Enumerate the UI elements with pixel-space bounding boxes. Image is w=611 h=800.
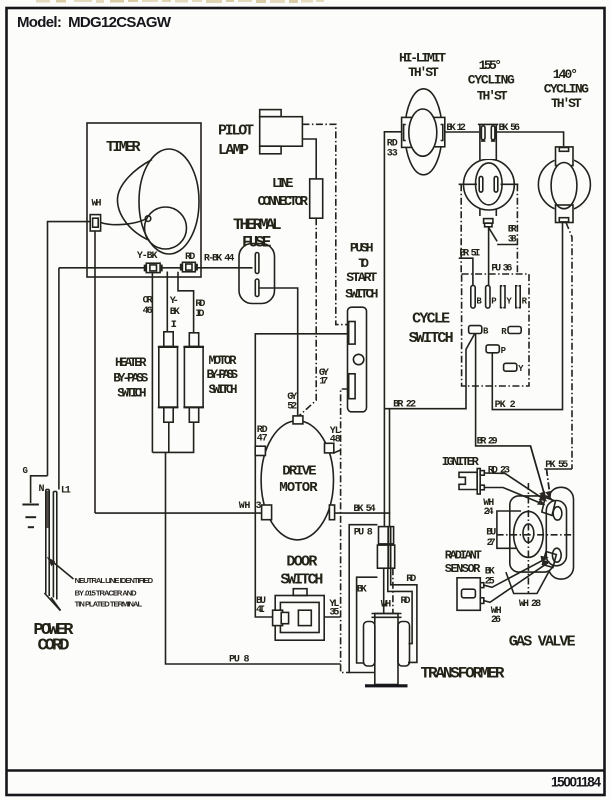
wire WH from timer terminal bottom down to WH3 line	[94, 231, 96, 513]
svg-text:26: 26	[491, 615, 501, 626]
svg-text:HEATER: HEATER	[115, 356, 147, 370]
gas valve bottom tab	[543, 552, 557, 568]
wire RD 10	[178, 272, 194, 333]
svg-text:Model: MDG12CSAGW: Model: MDG12CSAGW	[17, 14, 172, 31]
wire Y-BK 11	[166, 272, 168, 333]
gas valve top tab	[542, 498, 556, 516]
door switch	[273, 589, 325, 641]
svg-text:BU: BU	[486, 528, 496, 539]
svg-text:SENSOR: SENSOR	[445, 562, 481, 576]
svg-text:140°: 140°	[553, 67, 578, 82]
svg-text:G: G	[23, 466, 28, 476]
wire from pilot lamp to push-to-start	[302, 124, 348, 324]
svg-text:L1: L1	[61, 485, 71, 496]
svg-text:PU 8: PU 8	[229, 655, 250, 666]
svg-text:Y: Y	[506, 297, 512, 307]
svg-text:4I: 4I	[256, 605, 265, 616]
svg-text:R-BK 44: R-BK 44	[204, 254, 235, 265]
svg-text:GAS VALVE: GAS VALVE	[509, 634, 576, 651]
wire PK 55 end segment	[547, 469, 551, 496]
wire: main bus from L1 to thermal fuse (through Y-BK, RD terminals)	[59, 267, 253, 269]
svg-text:N: N	[39, 484, 45, 495]
svg-text:BR 22: BR 22	[393, 400, 416, 411]
motor terminal GY 52	[293, 416, 303, 424]
svg-text:LAMP: LAMP	[218, 142, 249, 159]
svg-text:SWITCH: SWITCH	[345, 287, 378, 302]
svg-text:PK 55: PK 55	[545, 460, 568, 471]
svg-text:MOTOR: MOTOR	[279, 480, 318, 496]
wire BR 51	[459, 249, 481, 286]
wire BK 25	[484, 558, 547, 587]
wire L1 riser from main bus	[58, 268, 60, 490]
svg-text:PK 2: PK 2	[495, 400, 516, 411]
cycle switch top slots B P Y R	[471, 285, 528, 308]
timer terminal WH	[90, 199, 101, 232]
timer terminal Y-BK	[137, 251, 162, 272]
svg-text:47: 47	[257, 433, 268, 444]
svg-text:25: 25	[485, 577, 495, 588]
motor terminal WH 3	[262, 505, 272, 520]
svg-text:R: R	[522, 297, 528, 307]
wire PU8 outer loop	[349, 525, 377, 673]
svg-text:START: START	[346, 270, 377, 285]
svg-text:CORD: CORD	[38, 637, 70, 656]
svg-text:BK: BK	[357, 584, 367, 595]
svg-text:24: 24	[484, 507, 494, 518]
svg-text:II: II	[171, 320, 177, 331]
svg-text:NEUTRAL LINE IDENTIFIED: NEUTRAL LINE IDENTIFIED	[75, 576, 154, 585]
wire from BR22 corner down to connector block	[389, 409, 391, 526]
wire BK 56	[496, 132, 563, 147]
motor terminal RD 47	[255, 446, 265, 455]
svg-text:BY .015 TRACER AND: BY .015 TRACER AND	[75, 588, 138, 597]
wire from push-to-start lower terminal: long vertical	[341, 389, 350, 673]
svg-text:BR 29: BR 29	[477, 437, 498, 448]
svg-text:IO: IO	[195, 309, 204, 320]
cycle switch contact Y	[504, 363, 524, 374]
gas valve coil ellipse	[514, 511, 544, 557]
cycle switch contact B	[469, 326, 489, 337]
line connector	[310, 179, 323, 218]
svg-text:PILOT: PILOT	[218, 123, 254, 140]
svg-text:PUSH: PUSH	[350, 240, 374, 255]
wire WH 26 / WH 28	[484, 563, 548, 603]
svg-text:WH: WH	[92, 199, 102, 210]
svg-text:BK: BK	[170, 307, 180, 318]
motor terminal BK 54	[329, 505, 334, 520]
svg-text:WH: WH	[381, 599, 392, 610]
gas valve	[497, 483, 574, 594]
svg-text:DOOR: DOOR	[286, 554, 317, 571]
svg-text:BY-PASS: BY-PASS	[113, 372, 148, 386]
svg-text:B: B	[476, 297, 482, 307]
svg-text:TO: TO	[358, 256, 369, 271]
connector axis dash	[392, 568, 394, 614]
svg-text:17: 17	[319, 377, 328, 388]
svg-text:BY-PASS: BY-PASS	[207, 368, 239, 382]
motor terminal YL 48	[325, 443, 334, 453]
wire WH from timer to N (left loop)	[48, 222, 90, 476]
svg-text:Y-BK: Y-BK	[137, 251, 158, 262]
svg-text:BK 56: BK 56	[499, 123, 521, 134]
svg-text:P: P	[491, 297, 497, 307]
svg-text:SWTICH: SWTICH	[117, 387, 146, 401]
svg-text:48: 48	[330, 434, 341, 445]
wire thermal fuse to motor GY52	[259, 288, 297, 416]
svg-text:DRIVE: DRIVE	[282, 464, 316, 480]
svg-text:CYCLE: CYCLE	[412, 311, 450, 328]
svg-text:TIN PLATED TERMINAL: TIN PLATED TERMINAL	[75, 599, 143, 608]
wire PU 36	[489, 228, 513, 286]
svg-text:RD: RD	[185, 252, 195, 263]
svg-text:P: P	[501, 346, 507, 356]
wire RD inner	[388, 568, 412, 643]
svg-text:HI-LIMIT: HI-LIMIT	[399, 51, 446, 66]
svg-text:SWITCH: SWITCH	[409, 330, 454, 347]
valve axis lines	[497, 534, 574, 536]
connector block PU 8	[377, 527, 394, 569]
svg-text:SWITCH: SWITCH	[209, 383, 238, 397]
neutral note text	[75, 576, 154, 608]
svg-text:RD: RD	[401, 596, 411, 607]
svg-text:WH 3: WH 3	[239, 501, 262, 512]
wire BK inner loop	[357, 577, 378, 663]
motor by-pass switch	[183, 333, 204, 422]
wire RD 23	[484, 473, 545, 500]
svg-text:LINE: LINE	[272, 177, 294, 192]
cut-off header text fragments	[36, 0, 324, 3]
svg-text:35: 35	[329, 608, 339, 619]
node G ground connection	[22, 466, 47, 527]
svg-text:TRANSFORMER: TRANSFORMER	[421, 665, 505, 683]
wire OR 46	[151, 273, 153, 453]
svg-text:15001184: 15001184	[551, 775, 601, 790]
svg-text:Y: Y	[518, 364, 524, 374]
hi-limit thermostat	[402, 89, 445, 175]
neutral note arrow	[47, 557, 74, 579]
svg-text:46: 46	[143, 306, 153, 317]
svg-text:BK 12: BK 12	[446, 123, 466, 134]
label BR 38 with leader	[489, 224, 518, 245]
svg-text:RADIANT: RADIANT	[445, 548, 482, 562]
thermal fuse	[239, 244, 275, 304]
wire WH into transformer	[383, 568, 385, 614]
svg-text:WH 28: WH 28	[519, 599, 541, 610]
svg-text:TH'ST: TH'ST	[477, 89, 508, 104]
svg-text:OR: OR	[143, 296, 153, 307]
wire PK 2	[492, 223, 562, 410]
wire from pilot lamp through line connector	[302, 139, 316, 179]
wire BK 54	[335, 512, 391, 514]
svg-text:155°: 155°	[479, 58, 503, 73]
svg-text:CYCLING: CYCLING	[468, 72, 515, 87]
ground symbol	[22, 504, 39, 506]
gas valve main body	[510, 496, 554, 572]
bottom separator line	[7, 769, 605, 772]
svg-text:SWITCH: SWITCH	[280, 572, 323, 589]
power cord conductors	[44, 490, 60, 611]
140 cycling thermostat	[538, 146, 590, 224]
timer cam cone	[101, 149, 200, 254]
svg-text:THERMAL: THERMAL	[233, 216, 282, 234]
svg-text:38: 38	[508, 234, 517, 245]
transformer	[364, 614, 410, 686]
wire WH 3 horizontal to drive motor	[95, 512, 262, 514]
pilot lamp	[260, 110, 303, 154]
wire node to push-to-start / RD47 / door switch	[255, 334, 348, 617]
timer terminal RD	[181, 252, 197, 272]
wire YL 35	[324, 616, 340, 618]
svg-text:52: 52	[287, 402, 297, 413]
wire RD 33	[384, 132, 401, 526]
svg-text:PU 36: PU 36	[491, 264, 512, 275]
heater by-pass switch	[158, 332, 179, 422]
wire tap to YL48	[333, 450, 341, 453]
svg-text:RD: RD	[406, 574, 416, 585]
svg-text:CYCLING: CYCLING	[544, 81, 589, 96]
wire GY 17 from line connector down to motor	[299, 218, 316, 416]
wire bypass bottom bus	[152, 422, 193, 452]
svg-text:R: R	[501, 327, 507, 337]
cycle switch box	[462, 274, 529, 386]
mechanical link 155 to cycle switch	[460, 184, 462, 274]
drive motor	[261, 421, 333, 540]
svg-text:TH'ST: TH'ST	[551, 96, 582, 111]
timer box	[87, 123, 201, 277]
wire RD outer	[391, 568, 417, 662]
wire BK 12	[445, 131, 480, 133]
svg-text:TIMER: TIMER	[106, 139, 141, 156]
svg-text:CONNECTOR: CONNECTOR	[258, 195, 309, 210]
wire BR 29 end segment	[531, 446, 545, 496]
wire BR 22 from contact B	[384, 334, 474, 411]
svg-text:Y-: Y-	[170, 296, 179, 307]
push to start switch	[348, 307, 367, 412]
155 cycling thermostat	[459, 124, 519, 227]
cycle switch contact P	[486, 345, 507, 356]
gas valve terminal plate	[546, 501, 566, 566]
wire PK 55 (dash)	[544, 223, 572, 497]
wire BR 29 from contact B to gas valve	[476, 334, 545, 496]
svg-text:PU 8: PU 8	[354, 528, 373, 539]
radiant sensor	[457, 578, 484, 611]
svg-text:FUSE: FUSE	[242, 234, 271, 252]
gas valve bottom flap	[506, 572, 549, 593]
svg-text:B: B	[483, 326, 489, 336]
svg-text:33: 33	[387, 149, 398, 160]
svg-text:BK 54: BK 54	[353, 504, 375, 515]
svg-text:27: 27	[487, 538, 496, 549]
svg-text:MOTOR: MOTOR	[209, 354, 237, 368]
igniter	[459, 469, 484, 495]
svg-text:RD 23: RD 23	[488, 466, 510, 477]
svg-text:IGNITER: IGNITER	[442, 455, 480, 469]
cycle switch contact R	[501, 327, 521, 337]
gas valve left bracket	[497, 511, 521, 548]
wire PU 8 long drop and bottom run	[166, 452, 341, 664]
svg-text:TH'ST: TH'ST	[408, 65, 439, 80]
wire WH 24	[484, 488, 543, 505]
